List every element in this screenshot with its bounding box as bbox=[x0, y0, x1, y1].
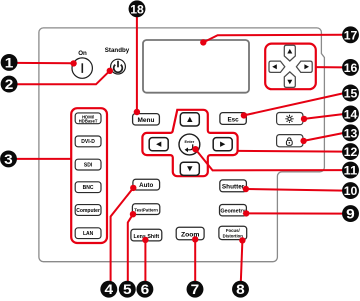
svg-text:SDI: SDI bbox=[84, 162, 93, 168]
svg-text:HDBaseT: HDBaseT bbox=[79, 119, 98, 124]
svg-text:On: On bbox=[78, 50, 87, 57]
svg-text:2: 2 bbox=[5, 77, 14, 92]
svg-text:13: 13 bbox=[344, 126, 358, 140]
svg-text:Geometry: Geometry bbox=[220, 209, 245, 215]
svg-text:Auto: Auto bbox=[139, 182, 153, 189]
svg-text:8: 8 bbox=[236, 282, 245, 297]
svg-text:LAN: LAN bbox=[83, 231, 94, 237]
svg-text:Focus/: Focus/ bbox=[226, 228, 241, 233]
svg-text:10: 10 bbox=[344, 184, 358, 198]
svg-text:Shutter: Shutter bbox=[222, 183, 245, 190]
svg-text:16: 16 bbox=[344, 61, 358, 75]
svg-text:Enter: Enter bbox=[185, 140, 195, 144]
svg-text:TestPattern: TestPattern bbox=[134, 207, 158, 212]
svg-text:1: 1 bbox=[5, 55, 14, 70]
svg-text:Esc: Esc bbox=[227, 116, 239, 123]
svg-text:Standby: Standby bbox=[105, 47, 130, 54]
svg-text:DVI-D: DVI-D bbox=[81, 139, 95, 145]
svg-text:Distortion: Distortion bbox=[223, 233, 244, 238]
svg-text:11: 11 bbox=[344, 164, 358, 178]
svg-text:17: 17 bbox=[344, 28, 358, 42]
svg-text:5: 5 bbox=[123, 282, 132, 297]
svg-text:Computer: Computer bbox=[76, 208, 100, 214]
svg-text:18: 18 bbox=[130, 2, 144, 16]
svg-text:6: 6 bbox=[141, 282, 150, 297]
svg-text:BNC: BNC bbox=[83, 185, 94, 191]
svg-text:7: 7 bbox=[191, 282, 200, 297]
svg-text:4: 4 bbox=[105, 282, 114, 297]
svg-text:Menu: Menu bbox=[138, 117, 155, 124]
svg-text:12: 12 bbox=[344, 145, 358, 159]
svg-text:9: 9 bbox=[346, 207, 355, 222]
svg-text:14: 14 bbox=[344, 107, 358, 121]
svg-text:3: 3 bbox=[4, 152, 13, 167]
svg-text:15: 15 bbox=[344, 87, 358, 101]
